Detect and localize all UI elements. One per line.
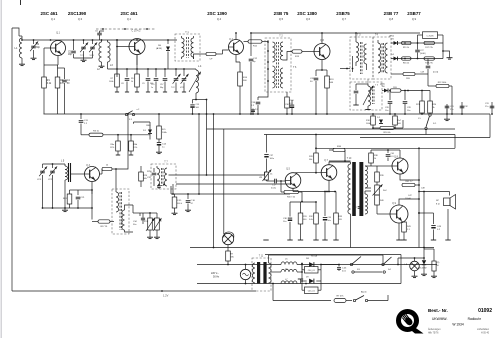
capacitor C26 (385, 90, 392, 115)
wire bias chain (371, 166, 377, 214)
cap box C44 (301, 264, 322, 273)
svg-text:100uF: 100uF (405, 198, 411, 200)
type label 2SB 75 (274, 11, 289, 21)
wire T2 out (283, 52, 292, 61)
resistor R12 pill (248, 40, 262, 48)
resistor R18r (424, 57, 435, 65)
T5 coil (363, 84, 374, 110)
resistor R20b pill (391, 72, 428, 80)
transistor Q4 (229, 39, 244, 55)
resistor R7 (109, 39, 119, 92)
resistor R19r (402, 41, 412, 49)
svg-text:C17: C17 (160, 84, 163, 86)
svg-text:Q.7: Q.7 (342, 17, 347, 21)
svg-text:UKW/MW-: UKW/MW- (432, 317, 448, 321)
capacitor C13 (190, 99, 207, 115)
transistor Q9 (390, 203, 408, 223)
T3 core (361, 42, 363, 74)
svg-text:10n: 10n (407, 110, 410, 112)
capacitor C47 label (405, 195, 413, 200)
wire Q4 emitter (236, 55, 240, 63)
wire choke join (301, 263, 303, 273)
wire rect out (321, 264, 340, 266)
svg-text:Q.1: Q.1 (51, 17, 56, 21)
svg-text:C45_01: C45_01 (308, 291, 316, 293)
transformer T3 box (350, 34, 373, 80)
svg-text:17n: 17n (485, 106, 488, 108)
resistor R39 (375, 170, 385, 185)
T7 coil b (164, 168, 167, 186)
wire top rail FM (22, 39, 177, 41)
wire vr bottom (0, 0, 1, 1)
wire C31 gnd (444, 114, 450, 121)
T7 coil a (157, 166, 160, 186)
resistor R35 (172, 194, 183, 215)
capacitor C43 (421, 188, 426, 190)
T8 coil b (122, 210, 125, 230)
resistor R2 (55, 77, 64, 114)
svg-text:1.2V: 1.2V (163, 294, 169, 298)
transformer T1 core (187, 37, 189, 58)
cap box C45 (302, 281, 321, 294)
trimmer C1 (30, 40, 41, 56)
capacitor C8b (121, 69, 129, 92)
resistor R1 (42, 77, 52, 114)
capacitor C42 (353, 203, 365, 212)
svg-text:2SC 1390: 2SC 1390 (207, 11, 227, 16)
transistor Q7d (321, 160, 337, 180)
wire pill to T8 (112, 113, 129, 190)
svg-text:Radiouhr: Radiouhr (468, 317, 482, 321)
svg-text:Hilb 75/76: Hilb 75/76 (428, 333, 439, 335)
wire vert x199 (198, 113, 200, 194)
capacitor C49 (431, 213, 442, 240)
wire AGC rail B (264, 134, 455, 136)
resistor R5 (157, 113, 168, 139)
lamp dial (222, 233, 233, 244)
wire MW gnd row (42, 207, 92, 212)
T7 core (162, 168, 164, 186)
svg-text:Q.9: Q.9 (412, 17, 417, 21)
wire Q2 collector (136, 39, 138, 41)
transformer T7 box (151, 161, 176, 190)
wire rail end (0, 0, 1, 1)
resistor R20 pill (390, 87, 401, 92)
switch S4 (382, 255, 392, 273)
svg-text:01092: 01092 (478, 308, 492, 314)
choke L7p (271, 279, 302, 284)
type label 2SC1390 (68, 11, 87, 21)
type label 2SC 461 (40, 11, 58, 21)
diode D osc (156, 39, 170, 69)
wire top rail IF (251, 32, 420, 34)
switch S3 (350, 257, 361, 274)
label W1934 (452, 323, 464, 327)
wire MW top (43, 163, 66, 165)
T10 bar right (359, 162, 363, 216)
svg-text:Q.4: Q.4 (217, 17, 222, 21)
deemphasis hook (443, 51, 453, 59)
varcap TC1 (80, 40, 89, 58)
svg-text:30p: 30p (160, 87, 163, 89)
wire vert x213 (213, 113, 215, 248)
svg-text:0.04u: 0.04u (271, 188, 276, 190)
wire Q6 collector (321, 32, 323, 43)
wire bias node (290, 201, 317, 213)
label AC (211, 272, 220, 279)
svg-text:Q.3: Q.3 (78, 17, 83, 21)
svg-text:2SC 1380: 2SC 1380 (297, 11, 317, 16)
svg-text:vorbehalten: vorbehalten (477, 328, 490, 331)
svg-text:R41 2.7: R41 2.7 (405, 181, 413, 183)
transformer T8 box (112, 189, 129, 234)
svg-text:117k: 117k (110, 147, 114, 149)
svg-text:RT 47k: RT 47k (337, 296, 345, 298)
wire right loop vert (489, 114, 491, 138)
svg-text:R22 100k: R22 100k (438, 82, 447, 84)
lamp top leads (224, 232, 234, 238)
T2 left line (267, 40, 269, 90)
label aenderungen (428, 328, 490, 331)
resistor pill R1k (102, 165, 112, 171)
wire Q8 collector (387, 149, 400, 158)
lamp LA (405, 257, 420, 278)
svg-text:2SC1390: 2SC1390 (68, 11, 87, 16)
capacitor C27 (415, 43, 426, 59)
capacitor C12 (249, 32, 258, 115)
T11 coil right (269, 263, 272, 283)
transistor Q2 (129, 30, 145, 55)
choke L5p (281, 259, 297, 265)
svg-text:2SB75: 2SB75 (336, 11, 350, 16)
wire bias drop 1 (44, 65, 58, 77)
type label 2SB75 (336, 11, 350, 21)
wire T7 out1 (169, 172, 267, 176)
wire audio rail 1 (190, 247, 434, 249)
resistor R14 (238, 62, 248, 115)
wire Q3 collector (100, 169, 103, 174)
wire AGC rail A (207, 128, 456, 130)
capacitor C36 (185, 194, 196, 212)
wire T5 top (356, 79, 368, 84)
svg-text:Q.6: Q.6 (306, 17, 311, 21)
transformer T1 right coil (191, 36, 194, 59)
svg-text:50 Hz: 50 Hz (213, 276, 220, 279)
pot VOL (143, 212, 156, 239)
capacitor C46 (337, 265, 347, 273)
wire sec to rail (0, 0, 1, 1)
switch alarm (346, 291, 388, 302)
wire filter to Q4 (216, 50, 229, 54)
resistor R43 (396, 218, 411, 240)
filter pill (206, 52, 216, 60)
wire out vert (418, 148, 420, 247)
AC source (240, 264, 250, 285)
type label 2SC 461 (120, 11, 138, 21)
wire T8 sec out (125, 205, 134, 232)
resistor RT47 pill (334, 296, 346, 303)
T3 coil b (364, 44, 367, 70)
transistor Q6 (314, 40, 330, 60)
svg-text:R3 1k: R3 1k (93, 131, 100, 133)
wire vert x207 (206, 100, 208, 176)
svg-text:R19 1k: R19 1k (403, 47, 409, 49)
label UKW (432, 317, 482, 321)
svg-text:H 05 40: H 05 40 (481, 333, 490, 335)
svg-text:10n: 10n (385, 110, 388, 112)
svg-text:2SB77: 2SB77 (407, 11, 421, 16)
svg-text:100k: 100k (109, 81, 113, 83)
wire sec top to Q8 (365, 165, 385, 167)
capacitor C4a (58, 68, 71, 114)
T8 coil a (116, 190, 119, 212)
wire L3 to Q2 base (0, 0, 1, 1)
capacitor C39e (323, 191, 332, 240)
capacitor C17c (267, 179, 287, 190)
svg-text:2SC 461: 2SC 461 (120, 11, 138, 16)
capacitor C5 (68, 40, 76, 58)
wire T10 pri bot (350, 214, 352, 248)
wire T11 sec top (269, 255, 384, 263)
svg-text:(A90): (A90) (389, 35, 394, 38)
wire low rail right (305, 255, 401, 285)
wire Q9 collector (399, 199, 419, 205)
svg-text:(R): (R) (437, 262, 440, 264)
wire Q2 emitter (136, 55, 138, 66)
pot R bias (373, 183, 388, 195)
wire lamp feed (213, 247, 215, 249)
svg-text:R17 51: R17 51 (100, 226, 108, 228)
capacitor C37e (264, 135, 274, 173)
wire Q5 collector (295, 172, 321, 174)
capacitor C32 (460, 102, 469, 115)
svg-text:T 10: T 10 (347, 158, 352, 160)
capacitor C18 (251, 97, 260, 115)
resistor R24 (428, 91, 437, 114)
capacitor C2.2 stub (251, 109, 258, 115)
transformer T4 box (373, 34, 391, 80)
wire out top (316, 140, 455, 150)
svg-text:5.6k: 5.6k (309, 219, 313, 221)
svg-text:(0.01): (0.01) (433, 72, 439, 74)
svg-text:C15: C15 (151, 84, 154, 86)
switch S1 lever (425, 114, 437, 135)
capacitor C41 (386, 150, 395, 161)
resistor R22 pill (428, 74, 453, 115)
svg-text:2.2: 2.2 (255, 109, 258, 111)
resistor R28 (309, 134, 318, 173)
resistor R16r (402, 57, 412, 65)
ground L2 (99, 64, 105, 68)
type label 2SB 77 (384, 11, 399, 21)
transformer T11 box (252, 256, 271, 292)
transformer T10 label (347, 158, 352, 160)
type label 2SB77 (407, 11, 421, 21)
svg-text:56k: 56k (144, 178, 147, 180)
svg-text:2.2k: 2.2k (134, 147, 138, 149)
transformer T1 left coil (182, 36, 185, 59)
wire Q2 base drop (116, 39, 118, 77)
node battery tap (161, 290, 169, 297)
svg-text:TC2: TC2 (171, 87, 175, 89)
resistor R32 (309, 202, 318, 240)
wire vert x223 (223, 129, 225, 234)
T11 bar left (257, 262, 260, 284)
resistor R17m pill (92, 220, 114, 228)
resistor R15 (285, 92, 295, 115)
wire R13 to Q6 (302, 51, 314, 53)
svg-text:R16 4k: R16 4k (384, 132, 392, 134)
diode D1 (134, 122, 153, 140)
T4 coil b (385, 43, 388, 73)
wire Q3 emitter (91, 182, 93, 195)
switch S1a (125, 109, 140, 121)
varcap VC2m (37, 164, 48, 208)
wire L4 bottom (195, 93, 197, 100)
T10 sec coil bot (365, 194, 368, 214)
svg-text:2SB 75: 2SB 75 (274, 11, 289, 16)
type label 2SC 1380 (297, 11, 317, 21)
diode D8 (306, 255, 318, 267)
logo Q (399, 312, 424, 334)
svg-text:56k: 56k (309, 159, 312, 161)
svg-text:(A90): (A90) (380, 83, 385, 86)
label Best Nr (428, 308, 448, 313)
T5 cap (353, 84, 358, 105)
wire Q8 base (385, 165, 392, 167)
wire emitter join (78, 189, 93, 219)
capacitor C6 top (95, 31, 104, 41)
wire Q1 base (44, 48, 51, 65)
svg-text:R16 1k: R16 1k (403, 63, 409, 65)
wire alarm up (388, 295, 390, 301)
wire T3 top (355, 32, 357, 39)
T10 primary coil (348, 164, 351, 214)
svg-text:10u: 10u (283, 221, 286, 223)
wire detector bottom rail (360, 137, 490, 139)
wire Q4 collector (235, 32, 237, 39)
resistor R41 pill (402, 181, 420, 187)
ground C1 (31, 56, 37, 60)
svg-text:1k: 1k (374, 158, 376, 160)
resistor R16b pill (372, 120, 403, 134)
svg-text:VC2: VC2 (180, 87, 184, 89)
svg-text:Alarm: Alarm (361, 291, 367, 294)
svg-text:C44_01: C44_01 (308, 270, 316, 272)
resistor R33 (334, 192, 343, 241)
wire T10 sec tap (365, 188, 371, 194)
wire Q7 collector (329, 162, 351, 165)
T11 coil left (252, 263, 255, 283)
diode D4 (391, 54, 398, 61)
label T1 (185, 31, 189, 34)
inductor L1 (15, 36, 22, 62)
wire Q6 emitter (321, 60, 323, 71)
capacitor C30e (285, 100, 294, 115)
varcap VC1 (89, 40, 98, 58)
T2 coil top right (280, 42, 283, 60)
osc bias bus (108, 68, 197, 70)
wire top right feed (423, 192, 434, 262)
capacitor C21 (76, 190, 86, 209)
inductor L2 (97, 40, 102, 71)
wire s4 right (397, 257, 425, 265)
label 01092 (478, 308, 492, 314)
T4 core (382, 43, 384, 73)
wire Q8 emitter (400, 174, 419, 180)
svg-text:33k: 33k (231, 257, 234, 259)
svg-text:NO.6A: NO.6A (311, 255, 318, 258)
wire out node line (418, 212, 433, 214)
T2 coil top (273, 42, 276, 62)
capacitor C15 (151, 69, 158, 92)
transformer T1 box (175, 34, 200, 61)
wire power rail low (197, 283, 401, 285)
resistor R6a (110, 135, 120, 155)
varcap VC2a (180, 69, 190, 92)
inductor L4 (189, 65, 202, 93)
label hilb (428, 333, 490, 335)
resistor R31 (298, 202, 307, 240)
wire Q1 collector (57, 39, 59, 42)
svg-text:1n: 1n (151, 87, 153, 89)
wire spk drop (0, 0, 1, 1)
T3 coil a (356, 39, 359, 66)
svg-text:8 Ω: 8 Ω (436, 204, 440, 206)
capacitor C34 (133, 213, 145, 226)
wire audio rail 2 (265, 254, 401, 256)
capacitor C17o (160, 69, 167, 92)
wire T3 in (340, 56, 353, 72)
transformer T2 box (265, 35, 297, 93)
svg-text:C 25/26: C 25/26 (426, 36, 434, 38)
scan edge shadow (0, 0, 2, 338)
wire L1 top to rail (19, 33, 22, 36)
svg-text:100k: 100k (366, 123, 370, 125)
T10 sec coil top (365, 166, 368, 188)
svg-text:Q.2: Q.2 (127, 17, 132, 21)
wire det right (442, 43, 444, 59)
resistor R13 pill (292, 50, 302, 58)
antenna wire (12, 28, 19, 33)
wire spk return (445, 209, 450, 240)
svg-text:R17 27k: R17 27k (425, 47, 432, 49)
wire drv rail (281, 181, 336, 192)
svg-text:R18 27k: R18 27k (425, 63, 432, 65)
svg-text:1k: 1k (131, 81, 133, 83)
capacitor C14e (156, 139, 167, 154)
resistor R18b (366, 113, 375, 128)
diode D2 (377, 117, 383, 125)
resistor R26 (139, 166, 148, 187)
ratio det top wire (391, 42, 443, 44)
wire bottom battery line (12, 290, 256, 292)
svg-text:Q.1: Q.1 (56, 32, 61, 35)
svg-text:R30 7.5k: R30 7.5k (287, 196, 295, 198)
wire base link (116, 46, 129, 48)
wire Q1 emitter (44, 56, 58, 66)
resistor R19e (325, 70, 335, 115)
T10 bar left (352, 162, 356, 216)
capacitor C emitter (310, 69, 327, 115)
svg-text:50n: 50n (133, 224, 136, 226)
wire T10 pri top (350, 162, 352, 164)
inductor L3 (108, 40, 114, 69)
wire left border (11, 28, 13, 291)
T5 core (373, 86, 375, 104)
resistor R17r (424, 41, 435, 49)
gnd ticks drv (263, 239, 338, 241)
